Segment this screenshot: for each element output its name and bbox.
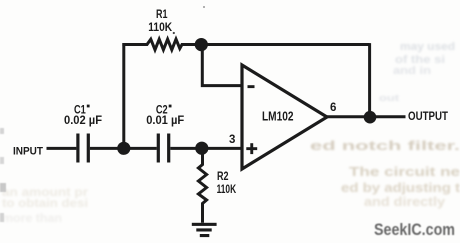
capacitor C1 (76, 134, 90, 163)
node C1-C2 junction (117, 142, 130, 155)
svg-text:The circuit ne: The circuit ne (349, 164, 460, 179)
svg-text:may used: may used (400, 41, 455, 53)
svg-text:0.02 µF: 0.02 µF (64, 113, 102, 127)
node R1 right junction (195, 38, 208, 51)
resistor R1 with top wire (122, 39, 369, 50)
resistor R2 (198, 148, 206, 223)
svg-text:OUTPUT: OUTPUT (408, 111, 448, 123)
svg-text:out: out (379, 93, 399, 103)
node pin3 junction (195, 142, 208, 155)
wire from R1 node down to - input (202, 45, 242, 86)
wire C1 to C2 (90, 147, 157, 150)
svg-text:and in: and in (393, 65, 431, 77)
svg-text:0.01 µF: 0.01 µF (146, 113, 184, 127)
svg-text:3: 3 (229, 134, 235, 146)
label C2* (156, 103, 172, 117)
svg-text:110K: 110K (148, 20, 172, 34)
svg-text:and directly: and directly (364, 194, 446, 209)
ground (192, 223, 217, 237)
svg-text:6: 6 (330, 102, 336, 114)
svg-text:to obtain desi: to obtain desi (2, 196, 88, 210)
wire C2 to op-amp + input (170, 147, 242, 150)
wire input to C1 (47, 147, 77, 150)
label C1* (74, 103, 90, 117)
svg-text:INPUT: INPUT (13, 145, 43, 157)
wire right vertical from top wire to output node (368, 43, 371, 117)
wire left vertical from top wire to C1-C2 node (122, 43, 125, 148)
op-amp U1 LM102 (242, 65, 327, 169)
svg-text:SeekIC.com: SeekIC.com (374, 220, 455, 239)
svg-text:R1: R1 (156, 7, 168, 21)
svg-text:R2: R2 (217, 169, 229, 183)
svg-text:110K: 110K (217, 182, 237, 196)
wire op-amp output to OUTPUT (326, 115, 406, 118)
svg-text:ed notch filter.: ed notch filter. (310, 138, 460, 153)
node output junction (364, 111, 377, 124)
svg-text:LM102: LM102 (262, 109, 294, 124)
svg-text:more than: more than (2, 211, 62, 225)
svg-text:ed by adjusting t: ed by adjusting t (341, 180, 460, 195)
capacitor C2 (157, 134, 171, 163)
